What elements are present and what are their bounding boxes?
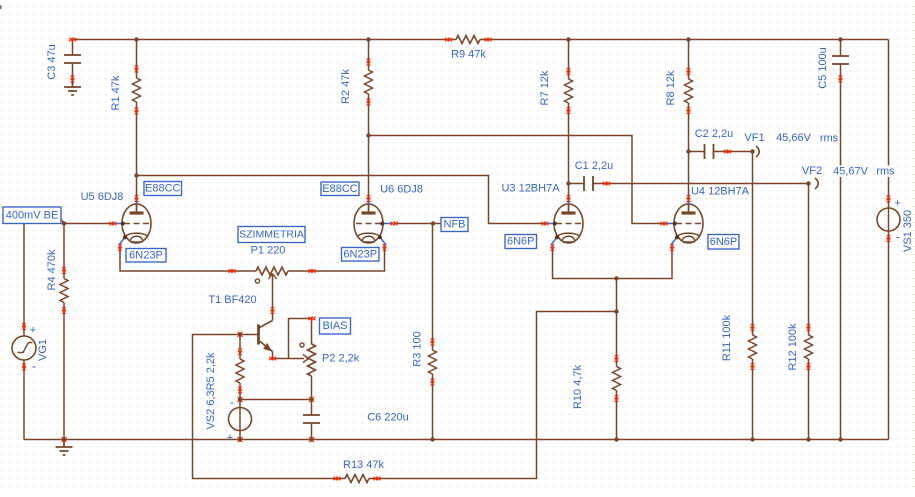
- svg-text:C6 220u: C6 220u: [367, 412, 409, 424]
- svg-text:+: +: [30, 325, 36, 337]
- svg-text:6N6P: 6N6P: [710, 236, 738, 248]
- svg-text:VF2: VF2: [802, 165, 822, 177]
- svg-text:R3 100: R3 100: [412, 331, 424, 366]
- svg-text:R4 470k: R4 470k: [46, 249, 58, 290]
- svg-text:E88CC: E88CC: [322, 183, 358, 195]
- svg-text:rms: rms: [876, 165, 895, 177]
- svg-text:BIAS: BIAS: [322, 320, 347, 332]
- svg-text:C1 2,2u: C1 2,2u: [575, 160, 614, 172]
- svg-text:6N23P: 6N23P: [343, 248, 377, 260]
- svg-text:SZIMMETRIA: SZIMMETRIA: [239, 229, 304, 241]
- svg-text:R1 47k: R1 47k: [110, 75, 122, 110]
- svg-text:C5 100u: C5 100u: [817, 47, 829, 89]
- svg-text:400mV BE: 400mV BE: [6, 209, 59, 221]
- svg-text:6N6P: 6N6P: [507, 236, 535, 248]
- svg-text:R12 100k: R12 100k: [787, 323, 799, 371]
- svg-text:R2 47k: R2 47k: [340, 69, 352, 104]
- svg-text:E88CC: E88CC: [145, 183, 181, 195]
- svg-text:R13 47k: R13 47k: [343, 459, 384, 471]
- svg-text:-: -: [896, 230, 900, 244]
- svg-text:VF1: VF1: [744, 132, 764, 144]
- svg-text:U6 6DJ8: U6 6DJ8: [380, 184, 423, 196]
- svg-text:-: -: [32, 359, 36, 373]
- svg-text:U3 12BH7A: U3 12BH7A: [501, 183, 560, 195]
- svg-text:VS1 350: VS1 350: [902, 210, 914, 252]
- svg-text:R10 4,7k: R10 4,7k: [572, 364, 584, 409]
- svg-text:R11 100k: R11 100k: [721, 314, 733, 361]
- svg-text:R9 47k: R9 47k: [451, 49, 486, 61]
- svg-text:VS2 6,3R5 2,2k: VS2 6,3R5 2,2k: [205, 352, 217, 430]
- svg-text:U4 12BH7A: U4 12BH7A: [691, 186, 750, 198]
- svg-text:-: -: [230, 395, 234, 409]
- svg-text:T1 BF420: T1 BF420: [208, 294, 256, 306]
- svg-text:P1 220: P1 220: [251, 245, 286, 257]
- svg-text:VG1: VG1: [37, 339, 49, 361]
- svg-text:NFB: NFB: [444, 219, 466, 231]
- svg-text:C2 2,2u: C2 2,2u: [695, 128, 734, 140]
- svg-text:45,67V: 45,67V: [833, 165, 869, 177]
- svg-text:C3 47u: C3 47u: [46, 44, 58, 79]
- svg-text:P2 2,2k: P2 2,2k: [322, 353, 360, 365]
- svg-text:R7 12k: R7 12k: [539, 70, 551, 105]
- svg-text:R8 12k: R8 12k: [665, 70, 677, 105]
- svg-text:rms: rms: [820, 133, 839, 145]
- svg-text:+: +: [894, 198, 900, 210]
- svg-text:+: +: [227, 432, 233, 444]
- svg-text:45,66V: 45,66V: [776, 132, 812, 144]
- svg-text:U5 6DJ8: U5 6DJ8: [81, 191, 124, 203]
- svg-text:6N23P: 6N23P: [129, 249, 163, 261]
